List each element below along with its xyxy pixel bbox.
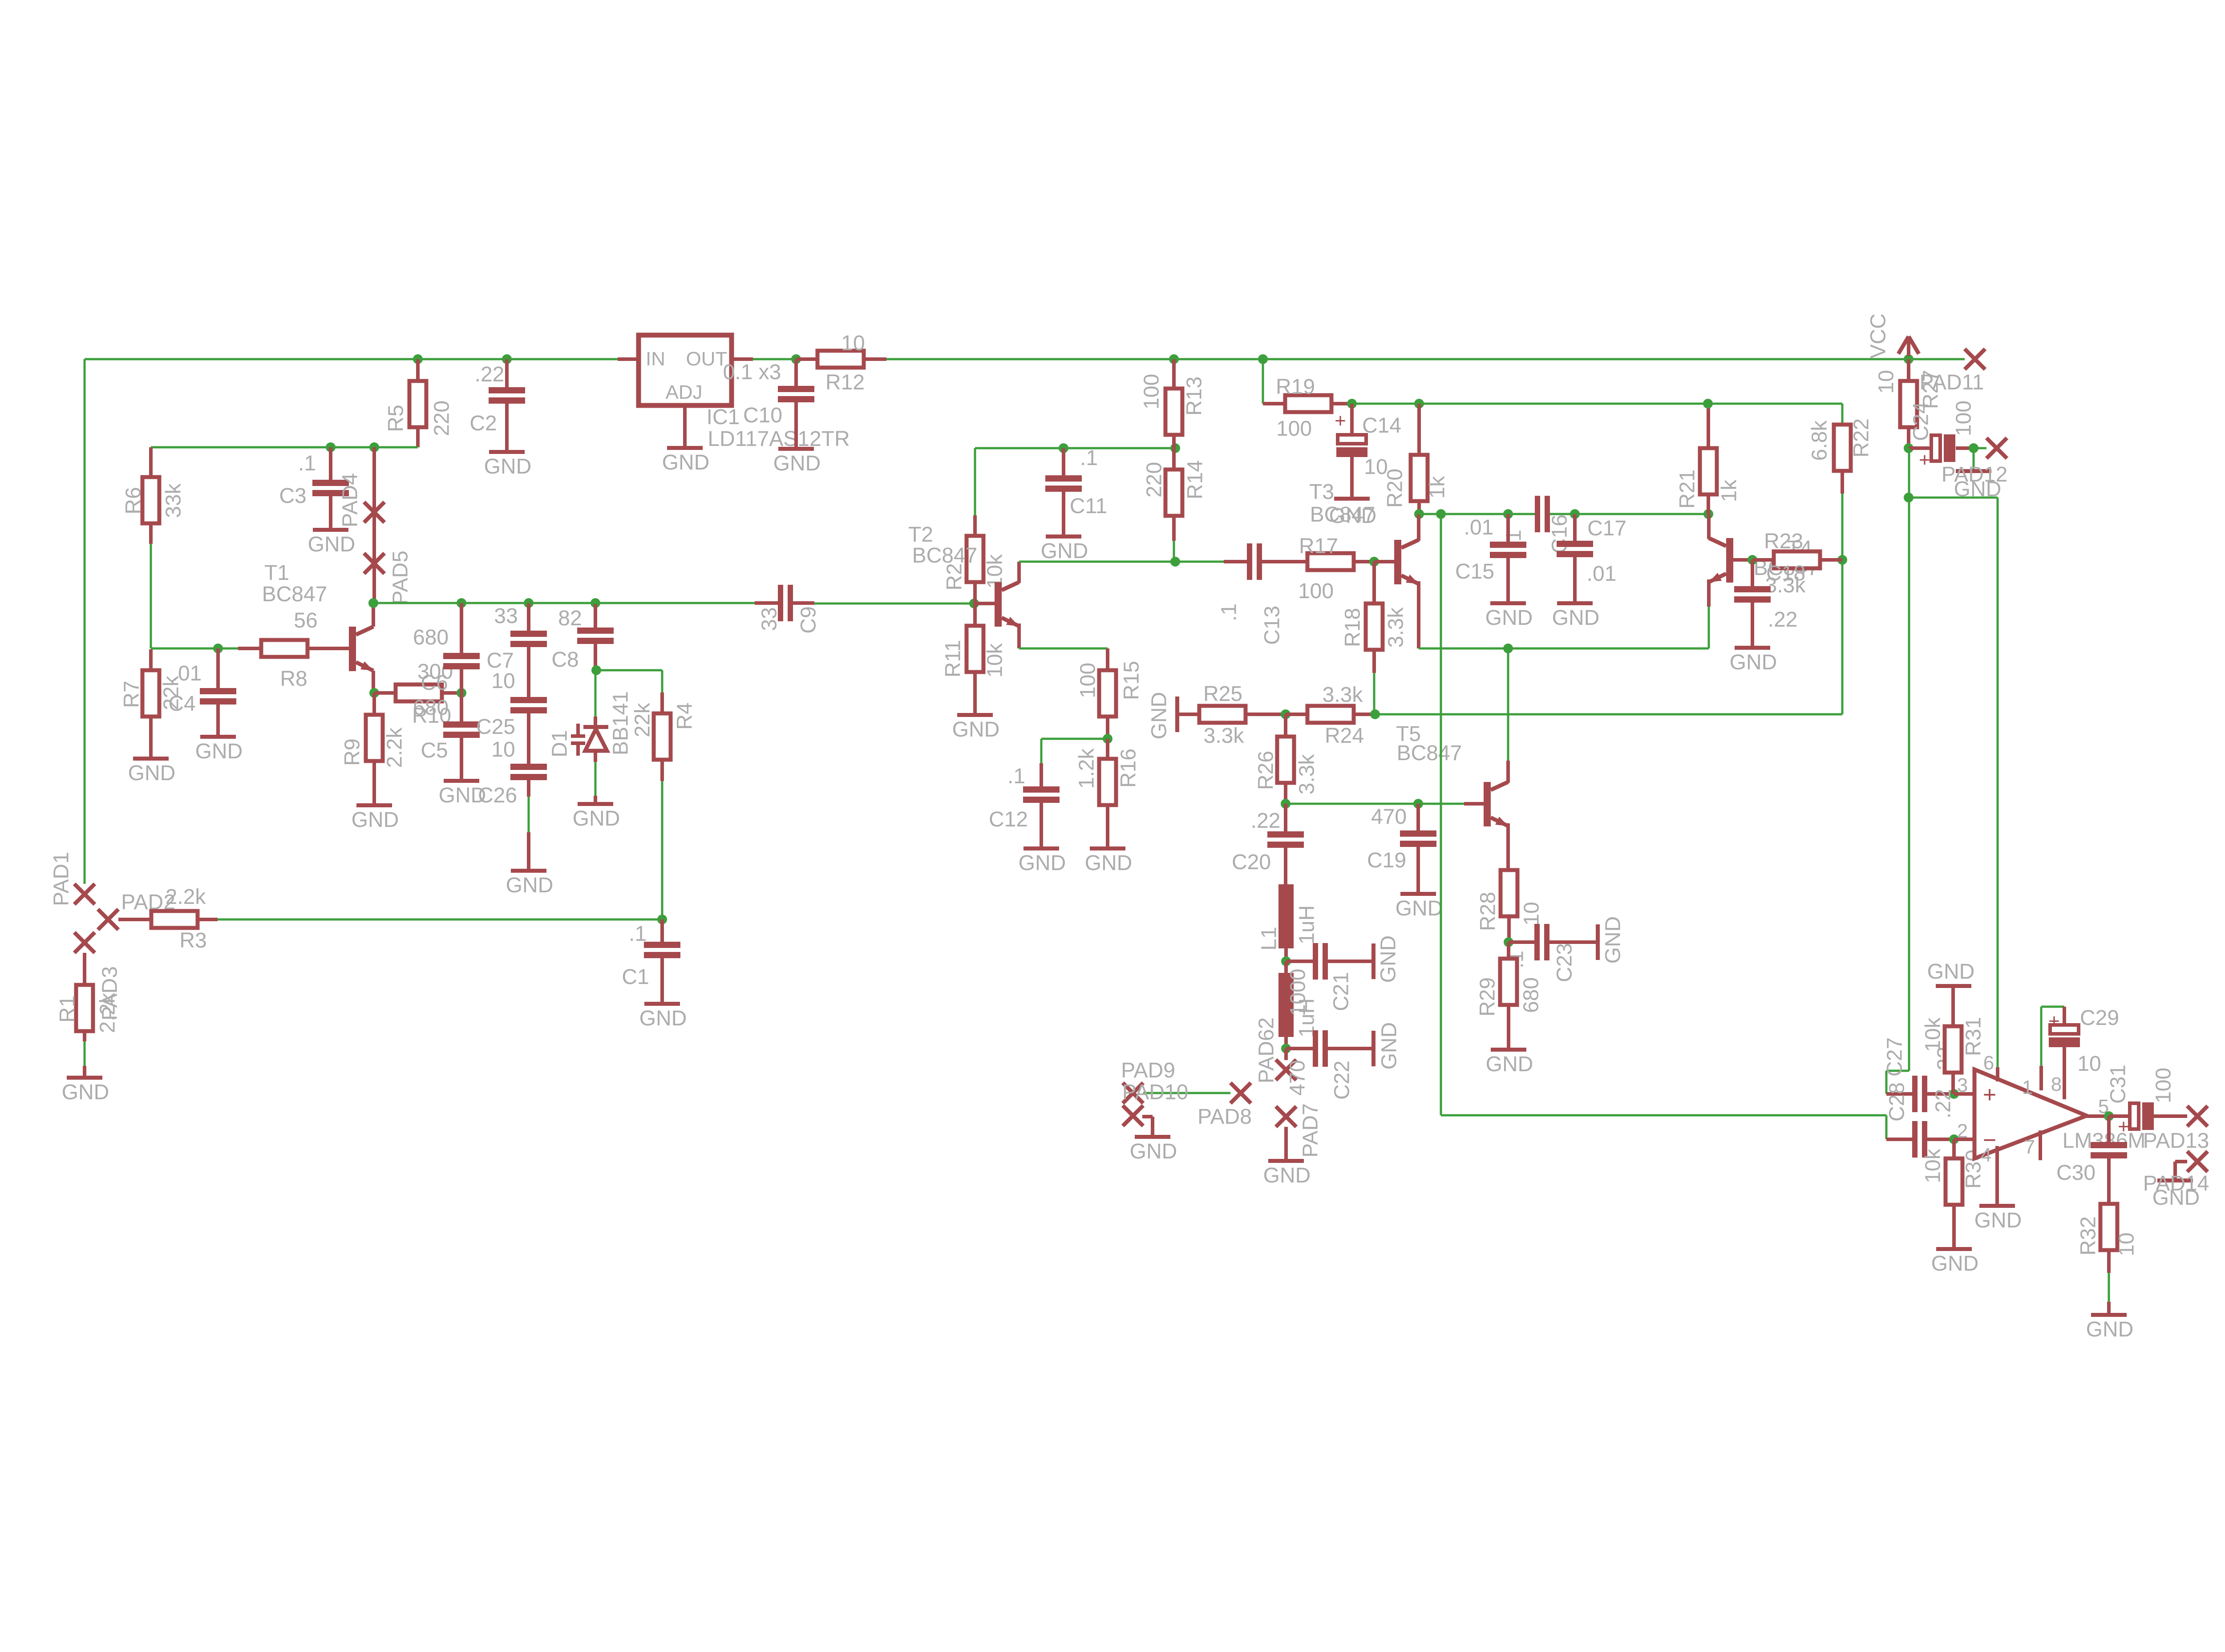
svg-text:R14: R14 <box>1184 460 1207 499</box>
resistor R9 lead <box>372 693 376 715</box>
resistor R12 <box>817 351 864 368</box>
junction T5 collector drop <box>1503 644 1513 653</box>
resistor R13 lead <box>1172 359 1176 389</box>
svg-text:GND: GND <box>62 1081 109 1104</box>
svg-text:.22: .22 <box>1768 608 1798 632</box>
svg-text:1000: 1000 <box>1286 969 1310 1016</box>
svg-text:T1: T1 <box>264 561 289 585</box>
pad PAD7 lead <box>1284 1127 1288 1159</box>
svg-text:470: 470 <box>1371 805 1407 829</box>
svg-text:ADJ: ADJ <box>665 381 702 403</box>
svg-text:+: + <box>1983 1082 1996 1108</box>
capacitor C14 polarized <box>1338 435 1366 444</box>
resistor R25 lead <box>1246 713 1286 716</box>
svg-text:R12: R12 <box>825 371 865 394</box>
svg-text:C30: C30 <box>2056 1161 2096 1185</box>
wire C12 top <box>1040 739 1043 763</box>
svg-text:.1: .1 <box>629 922 647 946</box>
svg-text:GND: GND <box>1486 1053 1533 1076</box>
resistor R5 <box>409 381 426 427</box>
resistor R18 lead <box>1372 650 1376 673</box>
svg-text:C11: C11 <box>1070 494 1108 518</box>
resistor R27 <box>1900 381 1917 427</box>
op-amp pin 7 lead <box>2039 1130 2042 1160</box>
resistor R23 <box>1774 551 1820 568</box>
capacitor C29 polarized <box>2050 1025 2079 1034</box>
transistor T2 base lead <box>974 602 995 605</box>
ground pin4 <box>1979 1204 2015 1208</box>
junction R13-R14 <box>1170 443 1180 453</box>
junction C1 top <box>657 915 667 924</box>
resistor R11 <box>967 626 983 672</box>
capacitor C22 lead <box>1328 1047 1371 1050</box>
capacitor C4 <box>200 688 236 694</box>
capacitor C26 <box>510 764 547 770</box>
pad PAD7 <box>1276 1106 1296 1127</box>
op-amp pin 5 lead <box>2087 1114 2109 1118</box>
junction C11 top <box>1059 443 1068 453</box>
svg-text:22k: 22k <box>631 702 655 737</box>
wire R19 to R21/R22 <box>1352 403 1708 405</box>
svg-text:GND: GND <box>952 718 1000 741</box>
resistor R32 lead <box>2107 1250 2111 1273</box>
capacitor C9 lead <box>755 601 778 605</box>
svg-text:BB141: BB141 <box>609 691 633 755</box>
svg-text:.1: .1 <box>1007 765 1025 788</box>
svg-text:+: + <box>1919 449 1930 471</box>
transistor T3 BC847 <box>1394 540 1401 584</box>
resistor R19 <box>1285 395 1331 412</box>
ground IC1 ADJ <box>667 446 703 450</box>
resistor R15 lead <box>1106 717 1109 739</box>
junction R10-C7 <box>457 688 466 698</box>
ground C4 <box>200 735 236 739</box>
ground C10 <box>778 447 814 451</box>
svg-text:2.2k: 2.2k <box>383 727 407 768</box>
wire T1 collector bus <box>373 602 595 604</box>
svg-text:C1: C1 <box>622 965 649 989</box>
wire R3 to C1 <box>218 919 662 921</box>
resistor R3 lead <box>198 918 218 921</box>
svg-text:OUT: OUT <box>686 348 728 370</box>
capacitor C2 <box>489 387 525 393</box>
svg-text:1.2k: 1.2k <box>1075 748 1099 789</box>
ground PAD7 <box>1268 1159 1304 1163</box>
resistor R3 <box>151 911 198 928</box>
wire to C9 <box>595 602 755 604</box>
wire pin1 to C29 <box>2040 1007 2043 1066</box>
wire R6 to base node <box>150 544 152 648</box>
ground C5 <box>444 779 479 783</box>
transistor T5 collector lead <box>1506 761 1510 783</box>
IC1 IN pin lead <box>618 357 639 361</box>
svg-text:R32: R32 <box>2077 1216 2100 1255</box>
svg-text:R9: R9 <box>341 738 364 765</box>
capacitor C14 lead <box>1350 457 1354 497</box>
capacitor lead <box>527 780 530 797</box>
resistor R3 lead <box>118 918 151 921</box>
svg-text:33: 33 <box>494 604 518 628</box>
svg-text:R17: R17 <box>1299 534 1338 558</box>
resistor R5 lead <box>416 427 420 447</box>
pad PAD13 <box>2187 1106 2208 1126</box>
capacitor C11 lead <box>1062 448 1065 475</box>
transistor T4 collector lead <box>1707 514 1711 539</box>
resistor R31 lead <box>1951 1073 1955 1094</box>
svg-text:GND: GND <box>1085 851 1133 875</box>
svg-text:PAD10: PAD10 <box>1122 1081 1189 1104</box>
svg-text:10: 10 <box>1520 902 1544 925</box>
pad PAD14 lead <box>2175 1160 2187 1163</box>
svg-text:GND: GND <box>506 874 554 897</box>
resistor R2 lead <box>973 515 977 536</box>
ground R11 <box>957 713 993 717</box>
svg-text:IN: IN <box>646 348 665 370</box>
wire collector net <box>1419 513 1535 515</box>
op-amp pin 1 lead <box>2039 1066 2043 1090</box>
wire R27 to C27 <box>1908 448 1910 1071</box>
svg-text:L1: L1 <box>1258 927 1281 950</box>
capacitor C20 lead <box>1284 848 1287 884</box>
svg-text:10: 10 <box>841 332 865 355</box>
resistor R7 lead <box>149 717 153 757</box>
svg-text:8: 8 <box>2051 1073 2062 1095</box>
resistor R14 lead <box>1172 516 1176 541</box>
junction C15 <box>1503 509 1513 519</box>
ground R31 inverted <box>1936 984 1971 988</box>
svg-text:PAD1: PAD1 <box>50 852 73 906</box>
wire R22 top <box>1841 404 1844 425</box>
capacitor C8 lead <box>594 644 597 669</box>
pad PAD8 <box>1230 1083 1251 1103</box>
resistor R12 lead <box>864 357 886 361</box>
transistor T5 base lead <box>1464 802 1484 806</box>
power VCC symbol <box>1907 337 1910 356</box>
capacitor lead <box>527 713 530 764</box>
capacitor C8 lead <box>594 604 597 629</box>
wire to R22 <box>1708 403 1842 405</box>
svg-text:VCC: VCC <box>1867 313 1890 358</box>
capacitor C22 lead <box>1286 1047 1313 1050</box>
resistor R9 lead <box>372 761 376 803</box>
junction C8 bottom <box>591 665 601 675</box>
wire PAD4 column <box>372 447 376 603</box>
op-amp LM386 <box>1974 1069 2087 1158</box>
junction R27 bottom <box>1904 443 1913 453</box>
resistor R24 lead <box>1286 713 1307 716</box>
junction R24-R18 <box>1370 709 1380 719</box>
svg-text:2.2k: 2.2k <box>96 992 120 1033</box>
capacitor C26 lead <box>527 832 530 869</box>
svg-text:0.1 x3: 0.1 x3 <box>723 360 781 384</box>
resistor R1 lead <box>83 1066 86 1076</box>
capacitor C8 <box>577 628 614 634</box>
resistor R7 <box>142 670 159 717</box>
junction pin2 <box>1949 1134 1959 1144</box>
capacitor C22 <box>1313 1030 1318 1067</box>
wire C8 to R4 <box>596 669 662 672</box>
svg-text:BC847: BC847 <box>912 544 978 567</box>
capacitor C19 lead <box>1416 804 1420 830</box>
svg-text:.22: .22 <box>1251 809 1281 833</box>
transistor T1 emitter lead <box>372 671 375 693</box>
wire R24 to R22 column <box>1375 713 1842 716</box>
svg-text:220: 220 <box>430 401 454 436</box>
capacitor C15 lead <box>1506 514 1510 542</box>
svg-text:3: 3 <box>1957 1074 1968 1096</box>
svg-text:D1: D1 <box>548 730 572 757</box>
svg-text:R20: R20 <box>1384 469 1407 508</box>
junction C19 top <box>1413 799 1423 809</box>
svg-text:GND: GND <box>2152 1186 2200 1210</box>
junction L1-L2 <box>1281 956 1291 966</box>
resistor R17 <box>1307 553 1354 570</box>
pad PAD1 <box>74 884 95 904</box>
wire R4 to C1 node <box>661 781 663 919</box>
pad PAD14 <box>2187 1151 2208 1172</box>
transistor T4 BC847 <box>1726 538 1733 583</box>
capacitor C28 lead <box>1927 1138 1954 1141</box>
resistor R6 <box>142 477 159 523</box>
svg-text:C5: C5 <box>421 739 448 762</box>
ground C16 <box>1557 601 1593 605</box>
svg-text:R15: R15 <box>1120 661 1144 700</box>
wire T4 emitter <box>1708 607 1710 648</box>
wire to C13 <box>1175 561 1224 563</box>
svg-text:10k: 10k <box>983 643 1007 677</box>
svg-text:GND: GND <box>1148 692 1171 740</box>
pad PAD2 <box>98 909 118 930</box>
resistor R27 lead <box>1907 359 1910 381</box>
svg-text:10k: 10k <box>1922 1148 1945 1183</box>
junction R13 top <box>1169 354 1179 364</box>
svg-text:C31: C31 <box>2107 1065 2130 1104</box>
capacitor lead <box>527 647 530 697</box>
resistor R24 lead <box>1354 713 1375 716</box>
capacitor C28 lead <box>1886 1138 1912 1141</box>
svg-text:C24: C24 <box>1909 402 1933 441</box>
capacitor C4 lead <box>216 648 220 688</box>
capacitor C3 lead <box>329 447 332 480</box>
wire R4 top <box>661 670 663 692</box>
capacitor C27 lead <box>1927 1092 1954 1096</box>
resistor R25 <box>1199 706 1246 723</box>
capacitor C10 lead <box>794 359 798 386</box>
IC1 ADJ pin lead <box>683 405 687 446</box>
svg-text:2: 2 <box>1957 1120 1968 1142</box>
svg-text:33: 33 <box>758 607 781 631</box>
svg-text:C15: C15 <box>1455 560 1494 583</box>
svg-text:GND: GND <box>2086 1318 2134 1341</box>
capacitor C13 lead <box>1262 560 1284 563</box>
resistor R10 lead <box>374 691 396 695</box>
svg-text:3.3k: 3.3k <box>1323 683 1363 707</box>
ground C1 <box>644 1002 680 1006</box>
wire T1 base node <box>151 648 238 650</box>
capacitor C18 lead <box>1751 603 1754 646</box>
svg-text:C3: C3 <box>279 484 306 508</box>
svg-text:680: 680 <box>1520 977 1543 1013</box>
capacitor C3 <box>312 480 349 486</box>
svg-text:C8: C8 <box>551 648 578 672</box>
transistor T5 BC847 <box>1484 782 1491 826</box>
resistor R22 lead <box>1841 471 1844 494</box>
svg-text:C23: C23 <box>1553 943 1577 982</box>
capacitor C30 lead <box>2107 1116 2111 1142</box>
resistor R20 <box>1411 455 1428 501</box>
ground R32 <box>2091 1313 2127 1317</box>
svg-text:6: 6 <box>1983 1052 1994 1074</box>
svg-text:BC847: BC847 <box>1310 503 1375 526</box>
transistor T4 emitter lead <box>1707 579 1711 607</box>
resistor R27 lead <box>1907 427 1910 448</box>
wire R26 to T5 base <box>1286 803 1464 805</box>
capacitor C30 <box>2091 1142 2127 1148</box>
inductor L1 <box>1278 884 1294 948</box>
svg-text:C17: C17 <box>1587 517 1626 540</box>
resistor R18 <box>1366 603 1383 650</box>
capacitor C23 lead <box>1549 940 1596 944</box>
wire R19 jog <box>1262 359 1264 404</box>
resistor R14 lead <box>1172 448 1176 470</box>
svg-text:GND: GND <box>128 761 176 785</box>
capacitor C30 lead <box>2107 1158 2111 1204</box>
svg-text:R31: R31 <box>1962 1017 1986 1056</box>
capacitor C13 <box>1247 543 1252 580</box>
svg-text:R23: R23 <box>1764 530 1803 553</box>
svg-text:C26: C26 <box>478 784 517 807</box>
wire C17 to T4 collector <box>1550 513 1708 515</box>
wire R2 top <box>974 448 976 515</box>
junction C14 top <box>1347 399 1357 409</box>
pad PAD9 lead <box>1142 1115 1153 1118</box>
transistor T2 collector lead <box>1017 562 1021 583</box>
ground C15 <box>1490 601 1526 605</box>
wire VCC rail <box>886 358 1965 360</box>
junction PAD4 column <box>369 442 379 452</box>
resistor R24 <box>1307 706 1354 723</box>
svg-text:GND: GND <box>1377 935 1400 983</box>
capacitor C10 <box>778 386 814 392</box>
wire C27 jog 2 <box>1885 1071 1888 1094</box>
wire R23 node down <box>1841 560 1844 714</box>
svg-text:GND: GND <box>1396 897 1443 920</box>
ground <box>1596 924 1600 960</box>
resistor R2 lead <box>973 582 977 603</box>
svg-text:GND: GND <box>1552 606 1600 630</box>
wire to C12 <box>1041 738 1108 740</box>
svg-text:R25: R25 <box>1203 682 1242 706</box>
capacitor C16 <box>1557 541 1593 547</box>
ground C2 <box>489 450 525 454</box>
voltage regulator IC1 LD117AS12TR <box>639 335 732 405</box>
resistor R1 lead <box>83 1031 86 1041</box>
resistor R15 lead <box>1106 648 1109 670</box>
wire PAD8 to PAD10 <box>1143 1092 1230 1094</box>
transistor T1 collector lead <box>372 603 375 627</box>
svg-text:1uH: 1uH <box>1295 905 1319 944</box>
resistor R13 <box>1165 389 1182 435</box>
ground C12 <box>1023 846 1059 850</box>
wire T5 collector <box>1507 648 1509 761</box>
svg-text:100: 100 <box>1076 663 1100 698</box>
wire left vertical to PAD1 <box>84 359 86 884</box>
svg-text:+: + <box>2118 1116 2129 1138</box>
junction T4 base <box>1748 555 1757 565</box>
svg-text:+: + <box>1335 410 1346 432</box>
capacitor C20 lead <box>1284 804 1287 831</box>
junction R25-R24-R26 <box>1281 709 1290 719</box>
junction T2 base <box>969 599 979 608</box>
capacitor C1 lead <box>660 958 664 1002</box>
svg-text:C20: C20 <box>1232 850 1271 874</box>
resistor R20 lead <box>1417 404 1421 455</box>
svg-text:+: + <box>2048 1010 2060 1032</box>
capacitor C29 lead <box>2063 1007 2066 1025</box>
junction pin3 <box>1949 1089 1959 1099</box>
resistor R4 <box>654 713 671 760</box>
resistor R13 lead <box>1172 435 1176 448</box>
svg-text:GND: GND <box>1602 916 1625 964</box>
junction C10 top <box>791 354 801 364</box>
resistor R28 <box>1501 870 1517 916</box>
junction T1 collector <box>368 598 378 608</box>
wire top rail to IC1 IN <box>85 358 639 360</box>
svg-text:R26: R26 <box>1254 751 1278 790</box>
junction R20 top <box>1414 399 1424 409</box>
svg-text:680: 680 <box>413 626 449 649</box>
wire pin6 drop <box>1997 498 1999 1067</box>
capacitor C1 lead <box>660 919 664 942</box>
junction R21 top <box>1703 399 1713 409</box>
inductor L1 lead <box>1284 948 1288 961</box>
capacitor C15 <box>1490 542 1526 548</box>
ground R30 <box>1936 1247 1972 1251</box>
svg-text:3.3k: 3.3k <box>1384 607 1408 648</box>
pad PAD10 <box>1123 1083 1143 1103</box>
svg-text:220: 220 <box>1143 462 1166 498</box>
wire D1 to ground <box>595 762 597 796</box>
ground R29 <box>1491 1048 1526 1052</box>
capacitor C5 <box>443 721 480 728</box>
svg-text:PAD7: PAD7 <box>1299 1103 1323 1158</box>
resistor R29 lead <box>1507 942 1510 959</box>
capacitor C4 lead <box>216 705 220 735</box>
svg-text:22k: 22k <box>160 675 183 710</box>
pad PAD12 <box>1986 438 2007 458</box>
capacitor 33 <box>510 631 547 637</box>
svg-text:100: 100 <box>2152 1068 2176 1103</box>
pad PAD3 <box>74 932 95 953</box>
resistor R8 lead <box>307 647 349 650</box>
ground C26 <box>511 869 546 873</box>
capacitor C25 <box>510 697 547 703</box>
capacitor C18 <box>1734 586 1771 592</box>
resistor R21 lead <box>1707 494 1710 514</box>
junction R22-R23 <box>1837 555 1847 565</box>
ground R9 <box>356 803 392 807</box>
capacitor C23 lead <box>1509 940 1534 944</box>
pad PAD5 <box>364 553 384 574</box>
resistor R11 lead <box>973 603 977 626</box>
resistor R21 lead <box>1707 404 1710 448</box>
svg-text:GND: GND <box>1041 539 1088 563</box>
svg-text:.01: .01 <box>1587 562 1617 586</box>
wire R18 to R24 node <box>1373 673 1375 714</box>
svg-text:1k: 1k <box>1718 479 1741 502</box>
ground C18 <box>1735 646 1770 650</box>
svg-text:IC1: IC1 <box>707 405 740 429</box>
